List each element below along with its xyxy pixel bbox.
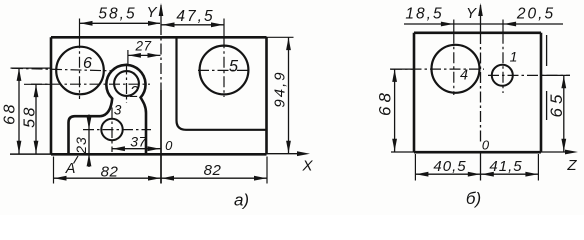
dimension 58,5 bbox=[80, 6, 161, 26]
hole 6 centerlines bbox=[12, 37, 111, 99]
dimension 41,5 bbox=[481, 158, 539, 177]
Y axis label (view b) bbox=[466, 5, 477, 22]
Y axis (view b) bbox=[478, 3, 483, 181]
extension line left 82 bbox=[53, 157, 55, 184]
hole 3 centerlines bbox=[83, 108, 151, 153]
svg-text:0: 0 bbox=[165, 138, 173, 153]
extension line hole4 (top) bbox=[453, 20, 455, 33]
part outline view a bbox=[51, 37, 267, 154]
Z axis label bbox=[566, 157, 577, 174]
svg-text:A: A bbox=[65, 161, 76, 177]
dimension 68 (view b) bbox=[376, 69, 398, 151]
boss contour around hole 2 bbox=[101, 65, 147, 154]
dimension 27 bbox=[128, 39, 161, 58]
hole 4 bbox=[432, 45, 480, 93]
dimension 94,9 bbox=[272, 37, 291, 153]
svg-text:37: 37 bbox=[130, 134, 147, 150]
hole 6 label bbox=[83, 55, 92, 72]
extension line right 82 bbox=[266, 157, 268, 184]
svg-text:а): а) bbox=[234, 191, 249, 210]
extension line right (41,5) bbox=[537, 154, 539, 181]
hole 1 centerlines bbox=[488, 33, 570, 93]
svg-text:68: 68 bbox=[376, 89, 395, 116]
Y axis (view a) bbox=[159, 3, 164, 184]
bottom edge extension left (view b) bbox=[391, 151, 414, 153]
svg-text:X: X bbox=[301, 158, 313, 175]
origin 0 (view a) bbox=[165, 138, 173, 153]
origin 0 (view b) bbox=[482, 138, 490, 153]
dimension 37 bbox=[112, 134, 161, 152]
edge line segments right (view b) bbox=[546, 35, 548, 120]
hole 6 bbox=[56, 47, 104, 95]
svg-text:65: 65 bbox=[547, 91, 566, 118]
dimension 40,5 bbox=[415, 158, 480, 177]
svg-text:47,5: 47,5 bbox=[176, 8, 214, 25]
X axis label bbox=[301, 158, 313, 175]
dimension 18,5 bbox=[404, 6, 481, 27]
Z axis bbox=[541, 150, 578, 155]
point A leader bbox=[74, 156, 79, 164]
svg-text:82: 82 bbox=[204, 162, 222, 179]
dimension 58 (view a) bbox=[22, 84, 39, 153]
hole 5 centerlines bbox=[198, 37, 250, 97]
hole 5 bbox=[200, 46, 249, 95]
svg-text:58: 58 bbox=[22, 105, 39, 128]
svg-text:82: 82 bbox=[101, 164, 119, 181]
svg-text:Z: Z bbox=[566, 157, 577, 174]
extension line 68 (view b) bbox=[390, 68, 414, 70]
svg-text:Y: Y bbox=[146, 4, 157, 21]
svg-text:68: 68 bbox=[2, 102, 19, 125]
svg-text:6: 6 bbox=[83, 55, 92, 72]
extension line 65 (view b) bbox=[541, 74, 570, 76]
hole 3 bbox=[101, 119, 122, 140]
dimension 23 bbox=[73, 115, 91, 168]
svg-text:1: 1 bbox=[510, 48, 518, 64]
bottom edge extension left (view a) bbox=[10, 153, 51, 155]
dimension 65 (view b) bbox=[547, 75, 566, 151]
svg-text:23: 23 bbox=[73, 136, 89, 155]
dimension 82 right bbox=[161, 162, 267, 181]
dimension 47,5 bbox=[162, 8, 225, 27]
svg-text:27: 27 bbox=[134, 39, 151, 54]
hole 3 label bbox=[114, 102, 122, 117]
svg-text:20,5: 20,5 bbox=[516, 6, 555, 23]
dimension 82 left bbox=[54, 164, 162, 181]
svg-text:0: 0 bbox=[482, 138, 490, 153]
point A label bbox=[65, 161, 76, 177]
hole 4 label bbox=[460, 68, 468, 84]
hole 2 bbox=[114, 71, 139, 96]
step contour (view a) bbox=[69, 116, 101, 154]
svg-text:4: 4 bbox=[460, 68, 468, 84]
svg-text:б): б) bbox=[466, 189, 481, 208]
extension line hole5 top bbox=[223, 19, 225, 38]
extension line left (40,5) bbox=[414, 154, 416, 181]
svg-text:58,5: 58,5 bbox=[98, 6, 136, 23]
svg-text:Y: Y bbox=[466, 5, 477, 22]
svg-text:41,5: 41,5 bbox=[489, 158, 522, 175]
X axis bbox=[267, 151, 311, 156]
dimension 20,5 bbox=[481, 6, 564, 27]
svg-text:2: 2 bbox=[129, 84, 139, 101]
hole 4 centerlines bbox=[391, 33, 484, 95]
svg-text:3: 3 bbox=[114, 102, 122, 117]
part outline view b bbox=[414, 33, 541, 152]
extension line top right (94,9) bbox=[267, 36, 294, 38]
extension line 68 (view a) bbox=[11, 67, 52, 69]
hole 2 label bbox=[129, 84, 139, 101]
extension line hole6 top bbox=[79, 19, 81, 38]
hole 1 label bbox=[510, 48, 518, 64]
hole 1 bbox=[492, 65, 513, 86]
svg-text:40,5: 40,5 bbox=[433, 158, 466, 175]
extension line 58 (view a) bbox=[24, 83, 51, 85]
caption b) bbox=[466, 189, 481, 208]
svg-text:94,9: 94,9 bbox=[272, 70, 289, 107]
hole 2 centerlines bbox=[31, 64, 150, 104]
caption a) bbox=[234, 191, 249, 210]
right section contour (view a) bbox=[177, 37, 267, 130]
svg-text:18,5: 18,5 bbox=[405, 6, 443, 23]
svg-text:5: 5 bbox=[229, 58, 239, 76]
Y axis label (view a) bbox=[146, 4, 157, 21]
extension line hole2 top bbox=[127, 50, 129, 64]
dimension 68 (view a) bbox=[2, 68, 22, 153]
extension line hole1 (top) bbox=[502, 20, 504, 33]
hole 5 label bbox=[229, 58, 239, 76]
